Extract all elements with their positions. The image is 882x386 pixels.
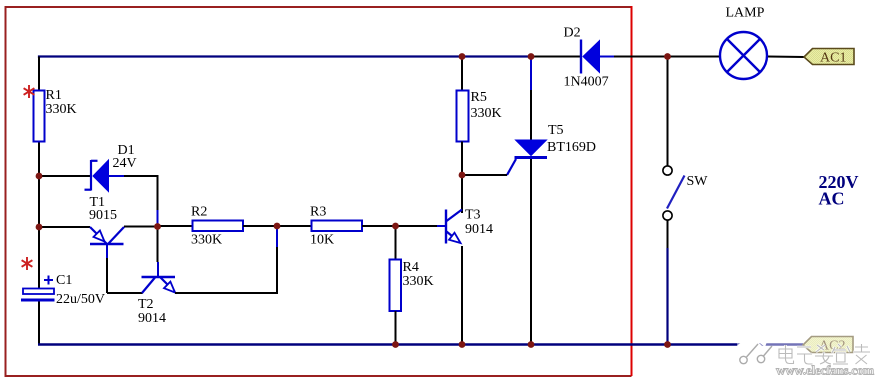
svg-text:R2: R2: [191, 205, 207, 220]
svg-text:10K: 10K: [310, 233, 334, 248]
wire: gate junction down to T3 collector: [461, 175, 463, 213]
wire: D2 anode pin (blue): [599, 56, 614, 58]
svg-text:330K: 330K: [46, 102, 77, 117]
wire: R5 column top: [461, 57, 463, 92]
lamp: [720, 32, 767, 79]
svg-text:T2: T2: [138, 297, 154, 312]
wire: blue stub above T1 collector junction: [157, 210, 159, 224]
port AC2: [803, 337, 853, 354]
wire: R2 to R3: [243, 225, 312, 227]
svg-text:D2: D2: [564, 26, 581, 41]
diode D1 (zener 24V): [85, 160, 109, 192]
transistor T2 (NPN 9014): [142, 262, 176, 293]
thyristor T5 (BT169D): [507, 140, 547, 175]
wire: gate horizontal: [463, 174, 507, 176]
resistor R5: [457, 91, 469, 142]
wire: T5 anode black: [530, 90, 532, 140]
wire: below switch (black): [667, 221, 669, 249]
border frame dark red (left/top/bottom): [6, 7, 632, 376]
transistor T1 (PNP 9015): [90, 227, 124, 258]
border frame right edge bright red: [631, 6, 633, 376]
diode D2 (1N4007): [581, 40, 600, 74]
wire: T5 anode stub blue below top junction: [530, 57, 532, 91]
svg-text:330K: 330K: [191, 233, 222, 248]
wire: bottom rail (navy): [38, 343, 803, 345]
wire: D1 anode pin (blue): [108, 175, 124, 177]
resistor R2: [193, 221, 244, 232]
watermark white wash band: [737, 330, 882, 378]
watermark logo circle: [734, 331, 773, 372]
svg-text:R3: R3: [310, 205, 326, 220]
svg-text:www.elecfans.com: www.elecfans.com: [776, 363, 874, 378]
svg-text:C1: C1: [56, 273, 72, 288]
svg-text:AC1: AC1: [820, 51, 846, 66]
svg-text:R5: R5: [471, 90, 487, 105]
wire: x=39 from T1 node down to C1: [38, 227, 40, 289]
svg-text:9015: 9015: [89, 208, 117, 223]
wire: T1 collector to junction: [124, 226, 158, 228]
wire: top rail black from D2 to lamp: [614, 56, 719, 58]
svg-text:T5: T5: [548, 123, 564, 138]
asterisk near R1: [24, 85, 35, 98]
svg-text:22u/50V: 22u/50V: [56, 292, 105, 307]
resistor R1: [34, 91, 45, 142]
svg-text:1N4007: 1N4007: [564, 75, 609, 90]
wire: left vertical x=39 top segment: [38, 57, 40, 92]
wire: R4 column from junction down: [395, 226, 397, 260]
wire: T3 base pin (blue): [437, 225, 445, 227]
wire: T1 base down to y=293: [106, 258, 108, 293]
wire: blue stub below R2/R3 junction: [276, 228, 278, 247]
capacitor C1: [21, 276, 55, 302]
port AC1: [804, 49, 854, 66]
wire: R3 to T3 base: [362, 225, 437, 227]
wire: T1 emitter wire from left node: [39, 226, 90, 228]
svg-text:R1: R1: [46, 88, 62, 103]
wire: junction to T2 base (black part): [157, 229, 159, 262]
wire: R4 bottom to rail: [395, 311, 397, 344]
wire: T2 emitter to corner x=277: [175, 292, 277, 294]
svg-text:LAMP: LAMP: [726, 6, 765, 21]
wire: x=39 between R1 and D1 node: [38, 142, 40, 228]
wire: x=39 from C1 to bottom rail: [38, 301, 40, 344]
wire: below switch (navy) to bottom rail: [666, 248, 668, 344]
svg-text:BT169D: BT169D: [547, 140, 596, 155]
resistor R4: [390, 260, 402, 312]
asterisk near C1: [22, 257, 33, 270]
wire: corner x=277 up to R2/R3 node (black): [276, 247, 278, 294]
svg-text:T3: T3: [465, 208, 481, 223]
svg-text:SW: SW: [687, 174, 709, 189]
wire: lamp to AC1 tag: [768, 56, 804, 59]
wire: T5 cathode down to rail: [530, 159, 532, 344]
transistor T3 (NPN 9014): [446, 210, 462, 244]
wire: T1 base to T2 collector: [107, 292, 143, 294]
wire: D1 anode to corner then down: [124, 176, 158, 210]
wire: top rail black from junction to D2 cathode: [531, 56, 580, 58]
wire: top rail (navy) from left corner to D2 junction: [39, 57, 531, 59]
wire: D1 cathode side: [39, 175, 91, 177]
svg-text:24V: 24V: [113, 156, 137, 171]
svg-text:330K: 330K: [403, 274, 434, 289]
wire: switch column from top rail to upper contact: [667, 57, 669, 167]
svg-text:330K: 330K: [471, 106, 502, 121]
svg-text:R4: R4: [403, 260, 419, 275]
resistor R3: [312, 221, 363, 232]
wire: R5 bottom to gate junction: [461, 142, 463, 176]
svg-text:AC: AC: [819, 189, 845, 209]
switch SW: [663, 166, 685, 220]
wire: horizontal run junction to R2: [158, 225, 193, 227]
svg-text:9014: 9014: [465, 222, 493, 237]
watermark text 电子发烧友 (approximated glyphs): [779, 344, 870, 364]
wire: T3 emitter down to rail: [461, 246, 463, 344]
svg-text:9014: 9014: [138, 311, 166, 326]
